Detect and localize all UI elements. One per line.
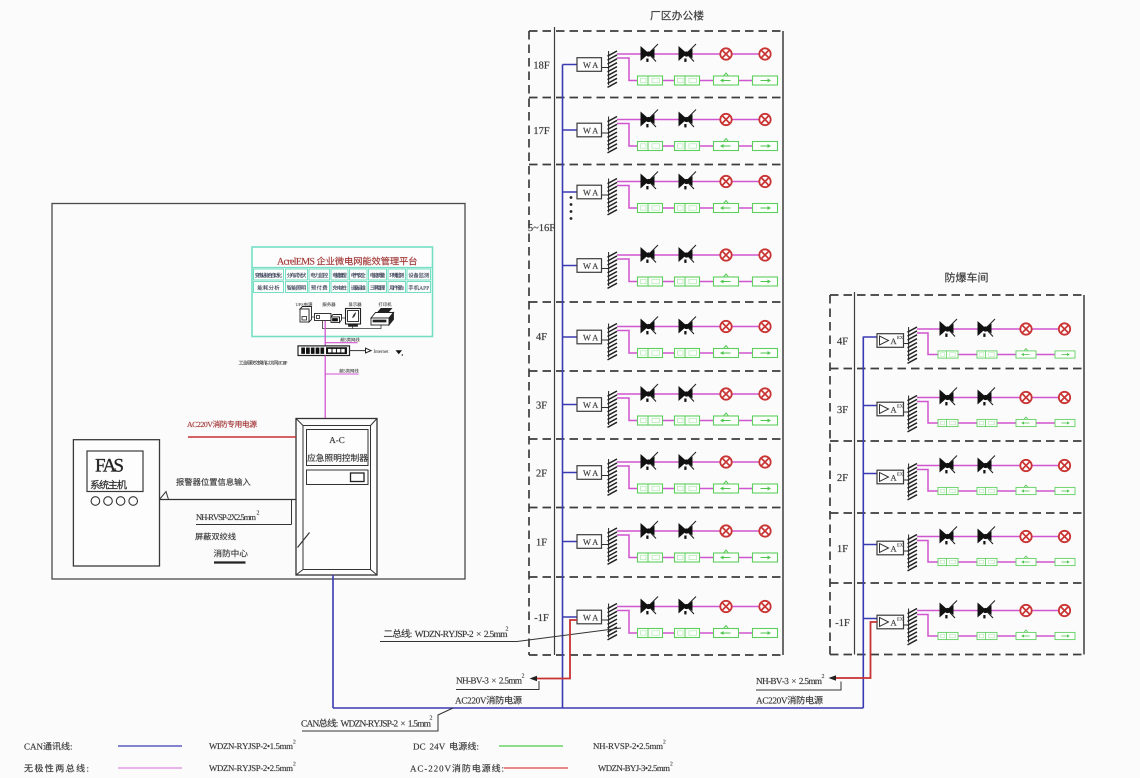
platform function cell: 三率管理	[369, 282, 387, 293]
platform function cell: 用户报告	[388, 282, 406, 293]
small cpu box icon	[331, 315, 342, 323]
floor label 5~16F (office)	[528, 224, 554, 231]
controller display	[351, 473, 365, 482]
platform function cell: 设备运维	[350, 282, 368, 293]
internet label	[374, 350, 389, 353]
floor separator (office)	[529, 301, 783, 303]
platform function cell: 预付费	[309, 282, 330, 293]
floor separator (office)	[529, 438, 783, 440]
floor 18F emergency lighting circuit (office)	[563, 44, 778, 87]
floor label 3F (office)	[536, 402, 546, 409]
platform function cell: 电气安全	[350, 269, 368, 280]
floor 17F emergency lighting circuit (office)	[563, 110, 778, 153]
AC220V fire power wire (office)	[533, 620, 577, 679]
label system host	[91, 480, 127, 489]
legend: AC220V fire line	[410, 764, 503, 772]
floor label 1F (office)	[537, 539, 547, 546]
floor label 18F (office)	[534, 62, 549, 69]
label alarm position info input	[176, 478, 250, 486]
ethernet drop to controller	[324, 356, 326, 419]
platform function cell: 设备监测	[407, 269, 431, 280]
label NH-BV cable (office)	[456, 677, 522, 683]
FAS nameplate box	[87, 451, 143, 492]
explosion-proof workshop title	[945, 272, 987, 282]
floor separator (office)	[529, 576, 783, 578]
label A-C	[329, 437, 344, 443]
label FAS	[96, 459, 123, 472]
CAN trunk leader	[302, 708, 453, 731]
floor 1F emergency lighting circuit (workshop)	[863, 527, 1075, 571]
icon label UPS	[296, 302, 313, 306]
alarm position signal wire	[160, 499, 297, 501]
office building dashed outline	[529, 30, 783, 32]
AcrelEMS platform panel	[252, 247, 433, 337]
wire switch-internet	[350, 350, 366, 352]
floor 1F emergency lighting circuit (office)	[563, 521, 778, 564]
icon label monitor	[349, 303, 362, 307]
FAS indicator lamp 4	[129, 497, 138, 506]
floor separator (workshop)	[830, 582, 1084, 584]
legend: DC24V line	[413, 742, 478, 750]
controller panel strip	[307, 470, 369, 485]
floor label -1F (workshop)	[836, 619, 850, 626]
label NH-BV cable (workshop)	[756, 678, 822, 684]
floor separator (office)	[529, 164, 783, 166]
twisted-pair break symbol	[160, 492, 169, 500]
CAN trunk: controller drop	[332, 575, 334, 708]
floor label 2F (office)	[536, 470, 546, 477]
floor 2F emergency lighting circuit (workshop)	[863, 456, 1075, 500]
wire spec bracket	[291, 500, 293, 525]
platform function cell: 能耗分析	[254, 282, 284, 293]
server icon	[315, 314, 332, 321]
floor separator (office)	[529, 507, 783, 509]
wire cpu-monitor	[342, 317, 346, 319]
label shielded twisted pair	[195, 533, 235, 541]
cabinet door handle slash	[298, 533, 310, 548]
floor label 4F (workshop)	[837, 338, 848, 345]
fire control room enclosure	[52, 204, 465, 580]
A-C emergency lighting controller cabinet	[296, 419, 377, 576]
label fire control centre	[214, 549, 248, 557]
CAN trunk: horizontal run	[333, 707, 863, 709]
cat5 cable tick (lower)	[325, 373, 358, 375]
platform title AcrelEMS	[277, 258, 314, 265]
FAS indicator lamp 2	[104, 497, 113, 506]
legend: CAN comm line	[24, 742, 71, 750]
floor label 1F (workshop)	[838, 545, 848, 552]
floor 3F emergency lighting circuit (office)	[563, 384, 778, 427]
legend AC220V sample	[504, 767, 568, 769]
label two-wire bus	[384, 629, 507, 638]
platform function cell: 电能质量	[369, 269, 387, 280]
floor separator (office)	[529, 370, 783, 372]
floor separator (workshop)	[830, 440, 1084, 442]
platform function cell: 充电桩	[331, 282, 348, 293]
floor 4F emergency lighting circuit (office)	[563, 317, 778, 360]
arrowhead (office feed)	[530, 676, 538, 681]
FAS system host cabinet	[73, 440, 159, 566]
legend DC24V spec	[593, 743, 663, 749]
legend two-wire spec	[209, 765, 293, 771]
arrowhead (workshop feed)	[829, 675, 837, 680]
legend two-wire sample	[118, 767, 182, 769]
legend: two-wire bus	[24, 764, 88, 772]
floor separator (office)	[529, 97, 783, 99]
ethernet drop from platform	[324, 321, 326, 346]
floor 16F(typ) emergency lighting circuit (office)	[563, 172, 778, 215]
cat5 label (lower)	[339, 369, 358, 373]
UPS tower icon	[300, 307, 312, 323]
label CAN trunk	[301, 719, 430, 728]
workshop riser wall line	[854, 292, 856, 655]
floor label 3F (workshop)	[837, 406, 847, 413]
floor 3F emergency lighting circuit (workshop)	[863, 388, 1075, 432]
switch caption	[239, 360, 288, 365]
AC220V fire power wire (workshop)	[832, 622, 877, 678]
floor separator (workshop)	[830, 368, 1084, 370]
icon label server	[323, 302, 336, 306]
fire control centre underline	[214, 561, 246, 563]
icon label printer	[379, 302, 392, 306]
wire UPS-server	[312, 316, 315, 318]
floor 4F emergency lighting circuit (workshop)	[863, 319, 1075, 363]
factory office building title	[650, 10, 703, 20]
floor label 2F (workshop)	[837, 474, 847, 481]
monitor icon	[346, 309, 361, 325]
NH-BV bracket (workshop)	[756, 682, 841, 691]
platform function cell: 分布式光伏	[286, 269, 308, 280]
cat5 cable tick (upper)	[325, 342, 357, 344]
label controller name	[307, 454, 367, 462]
floor label -1F (office)	[535, 614, 549, 621]
CAN bus riser (workshop)	[862, 337, 864, 709]
FAS indicator lamp 3	[116, 497, 125, 506]
floor label 4F (office)	[536, 333, 547, 340]
platform function cell: 环境监测	[388, 269, 406, 280]
floor label 17F (office)	[534, 127, 549, 134]
two-wire bus leader	[380, 628, 621, 642]
cat5 label (upper)	[340, 338, 359, 342]
office building riser wall line	[554, 27, 556, 655]
industrial ethernet switch	[298, 346, 350, 356]
CAN bus riser (office building)	[562, 65, 564, 709]
FAS indicator lamp 1	[91, 497, 100, 506]
legend AC220V spec	[598, 765, 670, 771]
label AC220V fire power (workshop)	[756, 696, 823, 704]
platform function cell: 电力监控	[309, 269, 330, 280]
printer icon	[371, 313, 394, 319]
platform function cell: 智能照明	[286, 282, 308, 293]
internet flag symbol	[396, 350, 403, 354]
ellipsis dots for repeated floors 5~16F	[570, 196, 573, 199]
floor 5F(typ) emergency lighting circuit (office)	[563, 245, 778, 288]
floor separator (workshop)	[830, 512, 1084, 514]
floor 2F emergency lighting circuit (office)	[563, 452, 778, 495]
platform function cell: 电能管理	[331, 269, 348, 280]
platform function cell: 变电站综合自动化	[254, 269, 284, 280]
legend CAN sample	[118, 745, 182, 747]
workshop dashed outline	[830, 294, 1084, 296]
platform title separator	[252, 267, 433, 269]
platform function cell: 手机APP	[407, 282, 431, 293]
label AC220V fire power (office)	[455, 696, 522, 704]
label NH-RVSP cable	[196, 514, 256, 520]
legend CAN spec	[209, 743, 293, 749]
floor -1F emergency lighting circuit (office)	[563, 597, 778, 640]
AC220V dedicated fire power wire	[188, 436, 296, 438]
network wires under icons	[323, 321, 353, 329]
label AC220V dedicated fire power	[187, 420, 257, 427]
controller nameplate box	[307, 430, 369, 466]
floor -1F emergency lighting circuit (workshop)	[863, 601, 1075, 645]
internet arrow	[366, 348, 372, 353]
legend DC24V sample	[499, 745, 563, 747]
NH-BV bracket (office)	[456, 681, 539, 690]
